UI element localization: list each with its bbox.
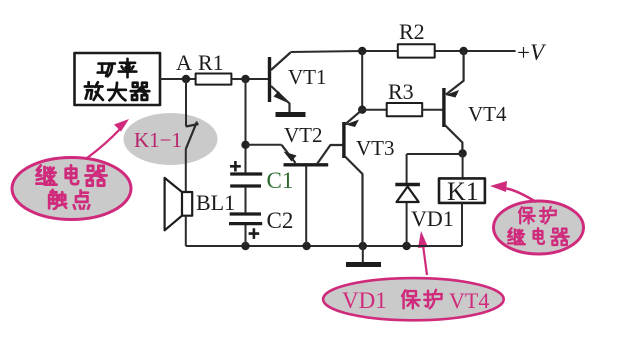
wire: R1 to junction to VT1 base [231, 78, 269, 80]
junction dot rail below VT3 [359, 242, 367, 250]
junction dot VT4 emitter node [458, 149, 466, 157]
svg-text:VT1: VT1 [288, 65, 327, 89]
transistor VT3 [344, 110, 363, 246]
wire: node A down to contact K1-1 [185, 79, 187, 127]
callout ellipse: protection relay 保护继电器 [494, 201, 584, 254]
wire: amp box to node A to R1 [160, 78, 196, 80]
wire: R3 to VT4 base [422, 109, 443, 111]
svg-text:R3: R3 [388, 79, 414, 104]
ground symbol [346, 246, 381, 265]
power amplifier box 功率放大器 [75, 53, 161, 105]
arrow from protection-relay callout to K1 box [490, 181, 536, 202]
svg-text:R1: R1 [198, 50, 224, 75]
wire: speaker to bottom rail [185, 216, 187, 246]
wire: node to R3 [362, 109, 387, 111]
wire: top rail down to R3 node [361, 51, 363, 110]
bottom rail wire [186, 245, 462, 247]
svg-text:R2: R2 [399, 19, 425, 44]
diode VD1 [395, 185, 420, 203]
svg-text:VT3: VT3 [356, 136, 395, 160]
svg-text:VD1: VD1 [411, 206, 454, 231]
wire: junction down through C1 C2 [245, 79, 247, 246]
plus sign of C2 [249, 228, 260, 239]
wire: contact to speaker [185, 149, 187, 192]
transistor VT4 [444, 51, 464, 153]
gray highlight ellipse behind K1-1 contact [124, 113, 218, 165]
svg-text:VT2: VT2 [284, 123, 323, 147]
wire: K1 to rail [461, 203, 463, 246]
wire: VD1 branch vertical [406, 154, 408, 246]
resistor R2 [398, 44, 435, 57]
transistor VT1 [270, 53, 306, 115]
svg-text:A: A [176, 50, 192, 75]
arrow from relay-contact callout to K1-1 [87, 119, 129, 158]
junction dot right of R1 [241, 75, 249, 83]
junction dot at R3 node [358, 106, 366, 114]
junction dot rail below VT2 base [302, 242, 310, 250]
svg-text:K1: K1 [447, 177, 479, 206]
relay coil K1 box [439, 178, 485, 203]
svg-text:VT4: VT4 [468, 102, 507, 126]
wire: emitter node down to K1 [462, 154, 464, 178]
resistor R3 [387, 103, 423, 116]
svg-text:C1: C1 [267, 168, 294, 193]
callout ellipse: relay contact 继电器触点 [12, 158, 131, 220]
svg-text:K1−1: K1−1 [134, 128, 182, 152]
speaker BL1 [165, 178, 193, 230]
junction dot rail below VD1 [402, 242, 410, 250]
svg-text:VD1: VD1 [342, 288, 387, 313]
junction dot at VT2 emitter tap [241, 141, 249, 149]
node A dot [182, 75, 190, 83]
svg-text:C2: C2 [267, 208, 294, 233]
relay contact K1-1 (switch) [186, 122, 199, 150]
junction dot top rail left [358, 47, 366, 55]
svg-text:VT4: VT4 [449, 288, 489, 313]
junction dot top rail right [459, 47, 467, 55]
top rail wire to +V [291, 51, 516, 52]
svg-text:+V: +V [517, 40, 547, 65]
capacitor C2 [229, 214, 262, 224]
wire: emitter node left to VD1 branch [407, 153, 463, 155]
plus sign of C1 [230, 161, 241, 172]
capacitor C1 [230, 174, 262, 186]
arrow from VD1-callout to VD1 [418, 231, 428, 275]
callout ellipse: VD1 protects VT4 [323, 278, 504, 320]
transistor VT2 [246, 145, 344, 246]
svg-text:BL1: BL1 [196, 190, 235, 215]
junction dot rail below C2 [241, 242, 249, 250]
resistor R1 [196, 74, 232, 85]
